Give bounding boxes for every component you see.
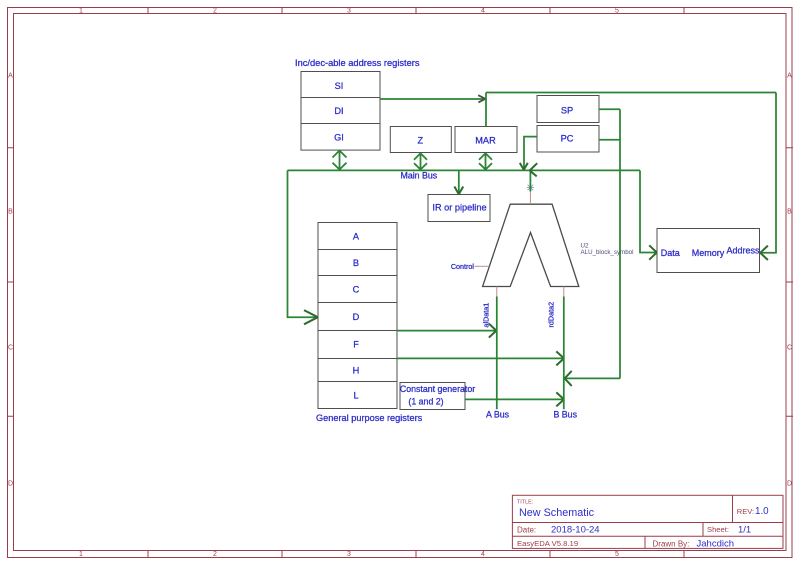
svg-text:D: D [8, 480, 13, 487]
svg-text:Main Bus: Main Bus [401, 171, 438, 181]
svg-text:B: B [787, 208, 792, 215]
wire B vertical (B Bus) [563, 297, 565, 410]
svg-text:3: 3 [347, 551, 351, 558]
svg-text:F: F [353, 340, 359, 350]
svg-text:Z: Z [417, 136, 423, 146]
wire into B leg (from PC/SP) [565, 377, 621, 379]
wire constant generator to B leg [465, 398, 564, 400]
svg-text:EasyEDA V5.8.19: EasyEDA V5.8.19 [517, 539, 578, 548]
svg-text:Jahcdich: Jahcdich [697, 539, 735, 550]
arrow down into IR [454, 187, 463, 195]
svg-text:TITLE:: TITLE: [517, 500, 533, 506]
svg-text:Sheet:: Sheet: [707, 525, 729, 534]
pin rdData2 [563, 287, 565, 298]
wire MAR to bus (double arrow) [479, 153, 492, 169]
svg-text:(1 and 2): (1 and 2) [408, 397, 443, 407]
svg-text:5: 5 [615, 551, 619, 558]
wire SP right [599, 108, 620, 110]
svg-text:D: D [787, 480, 792, 487]
wire ALU output to bus [529, 170, 531, 191]
svg-text:B: B [353, 258, 359, 268]
svg-text:Inc/dec-able address registers: Inc/dec-able address registers [295, 58, 420, 68]
svg-text:1.0: 1.0 [755, 506, 769, 517]
arrow into B vertical (A bus) [556, 392, 564, 406]
pin Control [475, 265, 490, 267]
arrow into Data [649, 245, 657, 259]
svg-text:IR or pipeline: IR or pipeline [432, 203, 486, 213]
svg-text:Address: Address [726, 246, 760, 256]
wire F row to B leg [397, 357, 564, 359]
wire Main Bus [288, 169, 641, 171]
wire SI/DI to MAR junction [380, 98, 486, 100]
svg-text:ALU_block_symbol: ALU_block_symbol [581, 249, 634, 256]
register SP [537, 96, 599, 123]
net marker x [527, 185, 534, 191]
memory block [657, 229, 760, 273]
svg-text:A: A [8, 72, 13, 79]
svg-text:REV:: REV: [737, 507, 754, 516]
register file A-L [318, 223, 397, 409]
svg-text:H: H [353, 365, 360, 375]
arrow left on bus at ALU output [530, 163, 538, 176]
pin alData1 [496, 287, 498, 298]
arrow into A vertical [489, 324, 496, 338]
wire A vertical (A Bus) [496, 297, 498, 410]
svg-text:1: 1 [79, 551, 83, 558]
wire junction down to MAR [485, 93, 487, 127]
svg-text:rdData2: rdData2 [547, 302, 556, 328]
wire bus down to IR [458, 170, 460, 193]
arrow left into B vertical [565, 371, 572, 386]
svg-text:Control: Control [451, 262, 475, 271]
svg-text:New Schematic: New Schematic [519, 507, 595, 519]
svg-text:B: B [8, 208, 13, 215]
svg-text:Data: Data [661, 248, 680, 258]
title block [512, 495, 783, 548]
wire D row to A leg [397, 330, 497, 332]
svg-text:A: A [787, 72, 792, 79]
svg-text:PC: PC [561, 134, 574, 144]
svg-text:A: A [353, 231, 360, 241]
svg-text:4: 4 [481, 8, 485, 15]
svg-text:GI: GI [334, 133, 344, 143]
svg-text:SP: SP [561, 106, 573, 116]
svg-text:DI: DI [334, 106, 343, 116]
pin x (ALU output) [529, 192, 531, 205]
svg-text:C: C [787, 344, 792, 351]
svg-text:2018-10-24: 2018-10-24 [551, 525, 600, 536]
block Constant generator [400, 383, 465, 410]
wire Z to bus (double arrow) [414, 153, 427, 169]
svg-text:1: 1 [79, 8, 83, 15]
wire PC left to bus [524, 137, 537, 169]
ALU U2 [483, 204, 579, 286]
svg-text:5: 5 [615, 8, 619, 15]
svg-text:MAR: MAR [475, 136, 496, 146]
register block SI/DI/GI [301, 72, 380, 151]
svg-text:2: 2 [213, 551, 217, 558]
svg-text:1/1: 1/1 [738, 525, 751, 536]
register MAR [455, 127, 517, 153]
wire GI to bus (double arrow) [333, 151, 347, 170]
svg-text:SI: SI [335, 81, 344, 91]
wire left bus vertical [288, 170, 317, 317]
svg-text:L: L [353, 391, 358, 401]
svg-text:A Bus: A Bus [486, 410, 510, 420]
svg-text:2: 2 [213, 8, 217, 15]
arrow into Address [760, 246, 768, 260]
wire bus to memory Data [640, 170, 657, 252]
svg-text:C: C [353, 285, 360, 295]
svg-text:C: C [8, 344, 13, 351]
register PC [537, 126, 599, 153]
arrow into D [304, 310, 318, 324]
svg-text:Drawn By:: Drawn By: [653, 540, 690, 549]
arrow right at junction [478, 95, 485, 102]
svg-text:Constant generator: Constant generator [400, 384, 475, 394]
svg-text:Memory: Memory [692, 248, 725, 258]
svg-text:4: 4 [481, 551, 485, 558]
arrow into B vertical [556, 351, 564, 365]
svg-text:B Bus: B Bus [554, 410, 578, 420]
wire right vertical to address [760, 93, 776, 253]
svg-text:3: 3 [347, 8, 351, 15]
block IR or pipeline [428, 195, 490, 222]
arrow down onto bus [520, 163, 528, 170]
svg-text:D: D [353, 312, 360, 322]
wire SP/PC vertical down [619, 109, 621, 378]
svg-text:Date:: Date: [517, 526, 536, 535]
svg-text:General purpose registers: General purpose registers [316, 413, 423, 423]
register Z [390, 127, 451, 153]
wire PC right [599, 139, 620, 141]
wire junction to memory address (top run) [486, 92, 776, 94]
